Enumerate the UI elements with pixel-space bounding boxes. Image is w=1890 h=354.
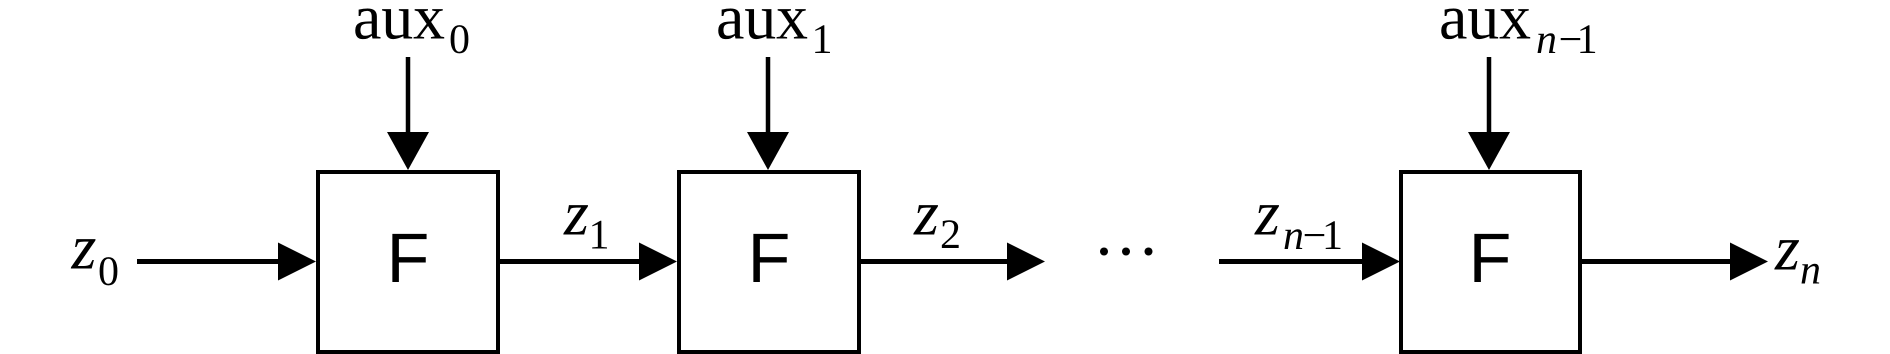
wire into F3: [1219, 259, 1366, 264]
wire F1 to F2: [500, 259, 643, 264]
block F1: [318, 172, 498, 352]
wire F3 out: [1582, 259, 1734, 264]
dots ellipsis: [1100, 248, 1108, 256]
svg-text:F: F: [387, 219, 430, 297]
wire F2 out to dots: [861, 259, 1011, 264]
wire aux1 down-arrow into F2: [766, 57, 771, 140]
wire z0 into F1: [137, 259, 282, 264]
wire aux0 down-arrow into F1: [406, 57, 411, 140]
svg-text:n: n: [1283, 213, 1304, 259]
svg-text:F: F: [748, 219, 791, 297]
svg-text:z: z: [1254, 178, 1280, 249]
svg-text:aux: aux: [353, 0, 445, 53]
svg-text:2: 2: [940, 212, 961, 258]
svg-text:aux: aux: [716, 0, 808, 53]
svg-text:0: 0: [98, 249, 119, 295]
svg-text:0: 0: [449, 17, 470, 63]
block F3: [1401, 172, 1580, 352]
svg-text:1: 1: [812, 17, 833, 63]
svg-text:1: 1: [589, 213, 610, 259]
svg-text:z: z: [71, 212, 97, 283]
svg-text:1: 1: [1577, 17, 1598, 63]
svg-text:aux: aux: [1439, 0, 1531, 53]
svg-text:F: F: [1469, 219, 1512, 297]
svg-text:z: z: [913, 178, 939, 249]
block F2: [679, 172, 859, 352]
svg-text:n: n: [1536, 17, 1557, 63]
svg-text:1: 1: [1322, 213, 1343, 259]
svg-text:n: n: [1800, 247, 1821, 293]
svg-text:z: z: [563, 178, 589, 249]
svg-text:z: z: [1774, 213, 1800, 284]
wire aux_n-1 down-arrow into F3: [1487, 57, 1492, 140]
